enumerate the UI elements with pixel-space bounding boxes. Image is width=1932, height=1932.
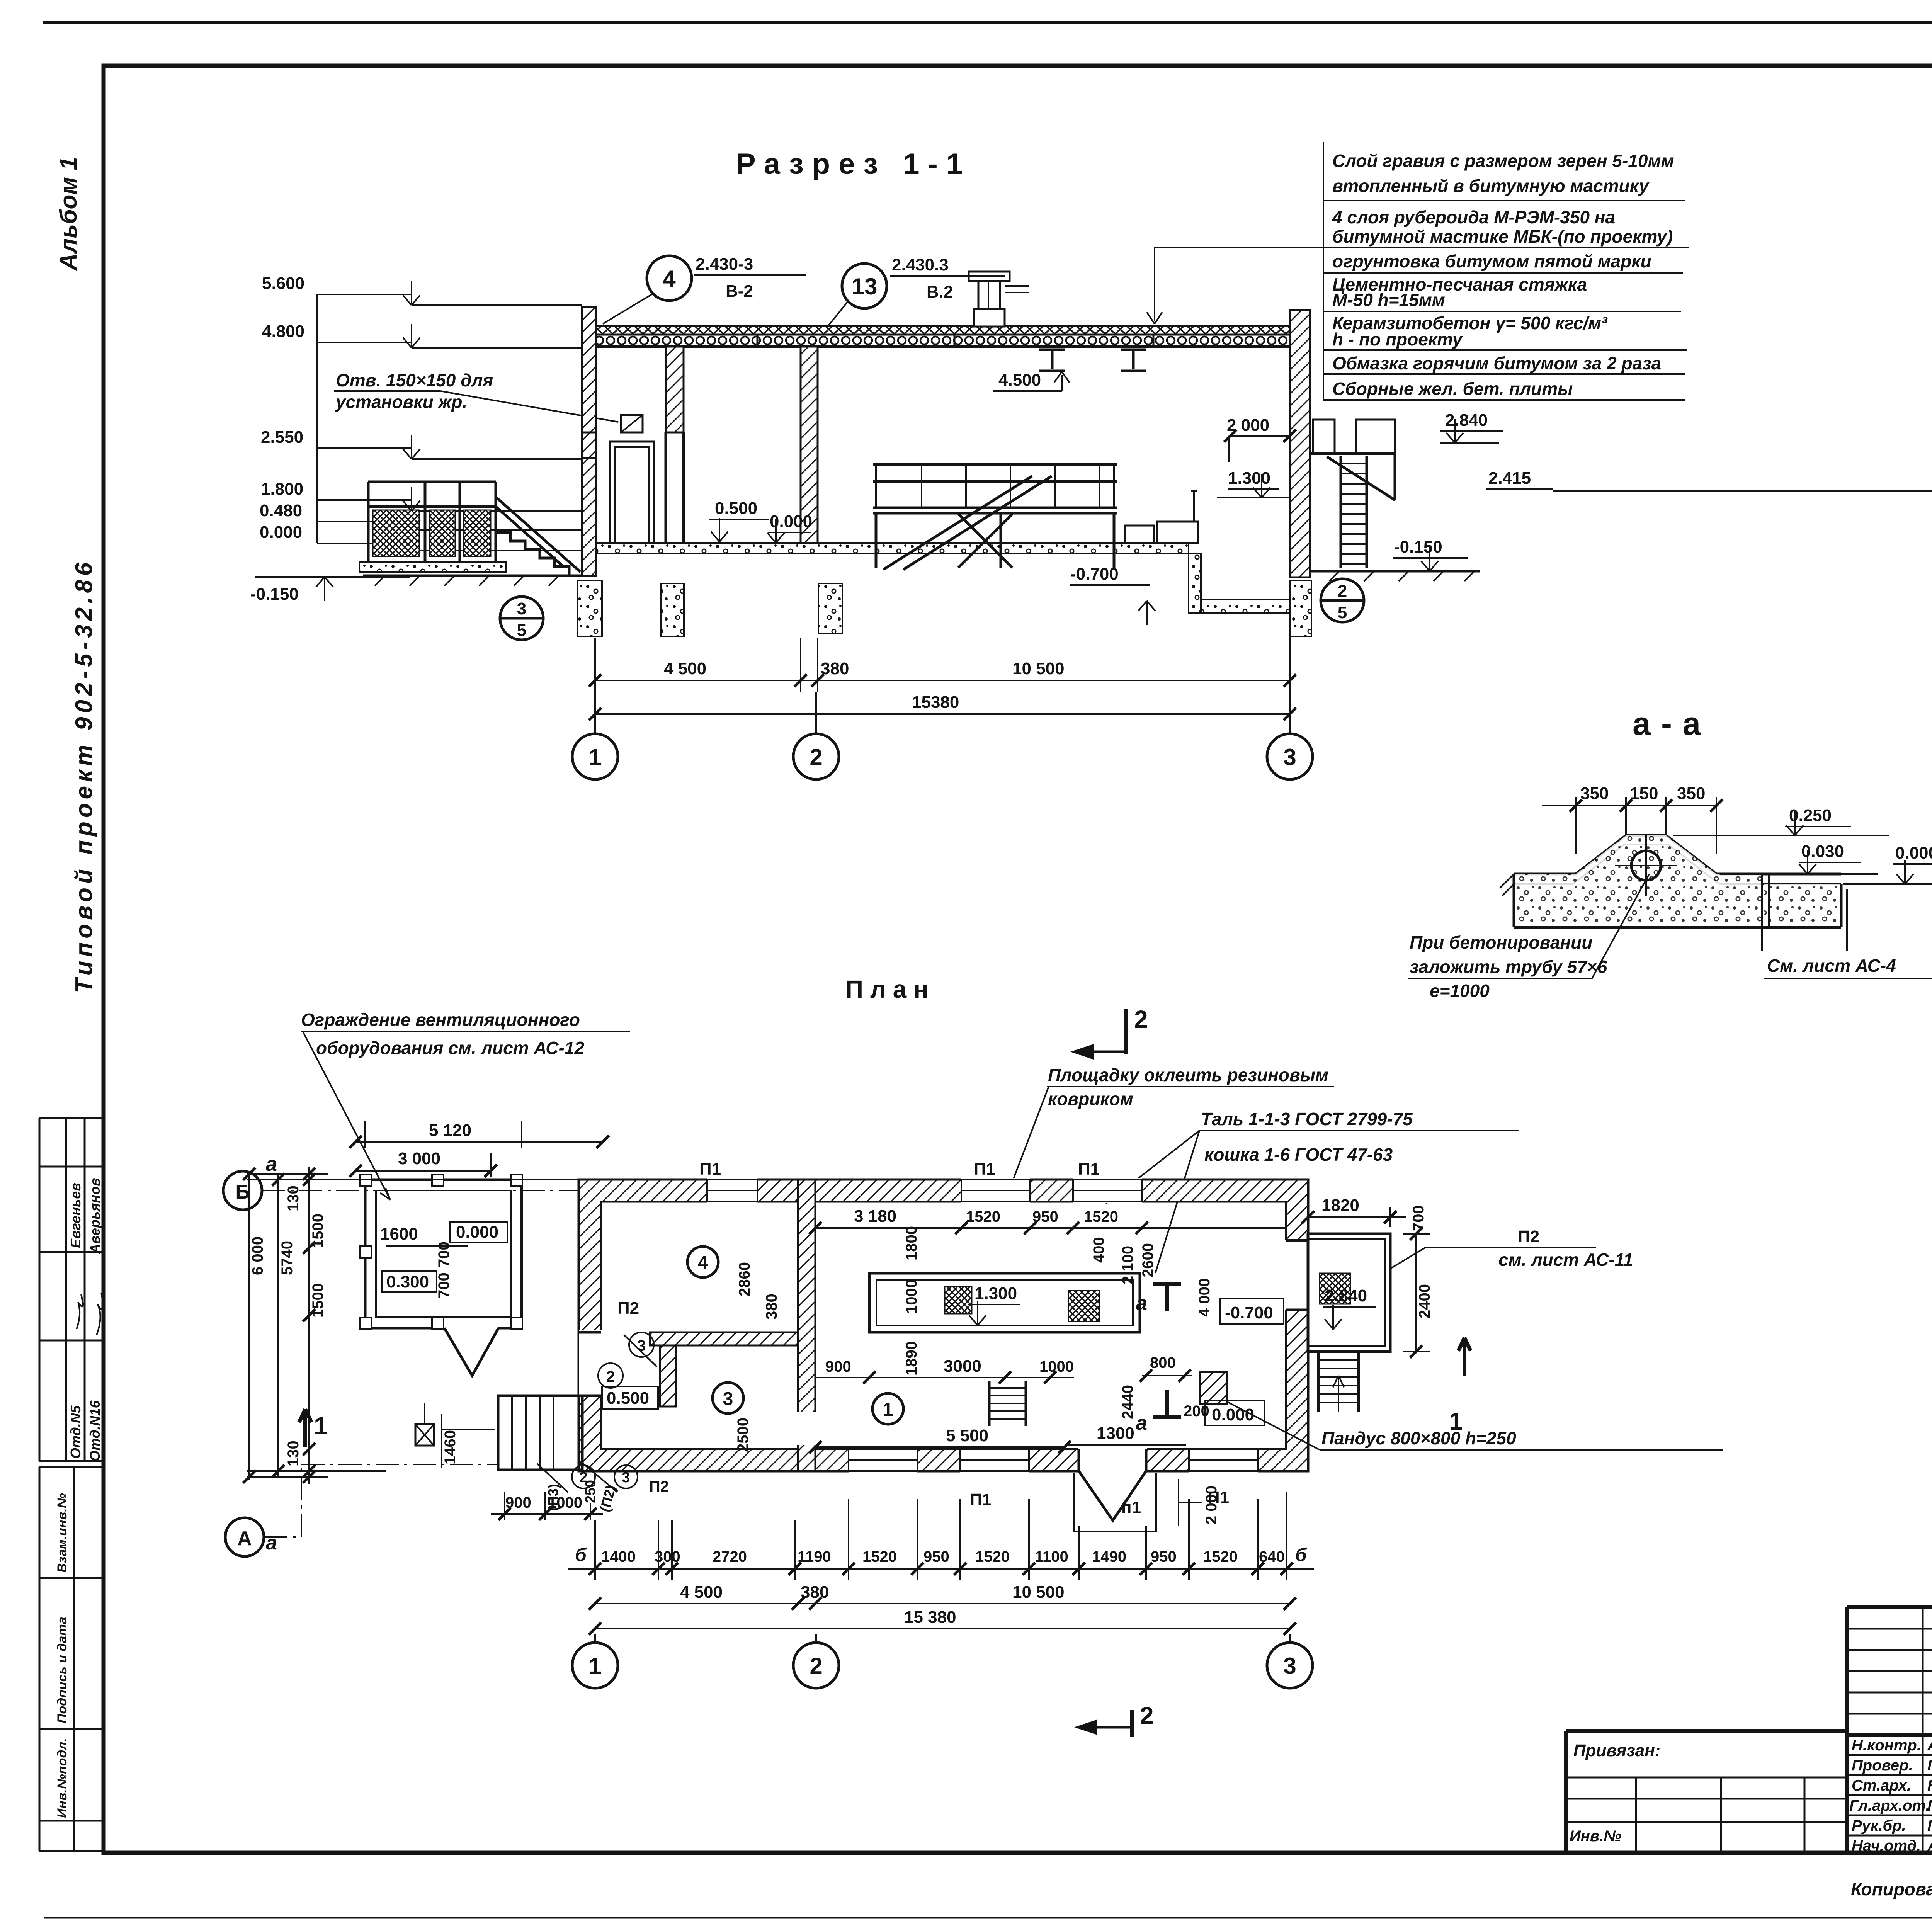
- svg-text:а - а: а - а: [1633, 706, 1701, 742]
- svg-text:5.600: 5.600: [262, 274, 304, 293]
- svg-text:1400: 1400: [601, 1548, 636, 1565]
- svg-text:0.500: 0.500: [607, 1389, 649, 1408]
- svg-text:-0.700: -0.700: [1070, 565, 1119, 583]
- svg-text:Инв.№: Инв.№: [1570, 1828, 1621, 1845]
- svg-text:1: 1: [883, 1400, 893, 1420]
- svg-text:130: 130: [285, 1185, 302, 1211]
- svg-text:ковриком: ковриком: [1048, 1089, 1133, 1109]
- svg-text:а: а: [266, 1153, 277, 1175]
- svg-text:Рук.бр.: Рук.бр.: [1852, 1817, 1906, 1834]
- svg-text:380: 380: [763, 1294, 780, 1320]
- svg-text:130: 130: [285, 1440, 302, 1466]
- svg-text:1800: 1800: [903, 1226, 920, 1260]
- svg-text:350: 350: [1580, 784, 1609, 803]
- svg-text:Привязан:: Привязан:: [1573, 1741, 1660, 1760]
- svg-text:М-50 h=15мм: М-50 h=15мм: [1332, 290, 1445, 310]
- svg-text:4 500: 4 500: [664, 659, 706, 678]
- svg-text:Обмазка горячим битумом за 2 р: Обмазка горячим битумом за 2 раза: [1332, 353, 1661, 373]
- svg-text:3: 3: [1283, 1653, 1296, 1679]
- svg-text:3: 3: [637, 1337, 646, 1354]
- svg-text:5: 5: [517, 621, 526, 640]
- svg-text:П2: П2: [649, 1478, 669, 1495]
- svg-text:втопленный в битумную мастику: втопленный в битумную мастику: [1332, 176, 1650, 196]
- svg-text:Альтшуллер: Альтшуллер: [1927, 1837, 1932, 1854]
- svg-text:заложить трубу 57×6: заложить трубу 57×6: [1410, 957, 1607, 977]
- svg-text:1600: 1600: [380, 1225, 418, 1243]
- svg-text:В.2: В.2: [927, 282, 953, 301]
- svg-text:1: 1: [1449, 1407, 1463, 1435]
- svg-text:3000: 3000: [944, 1357, 981, 1376]
- svg-text:Площадку оклеить резиновым: Площадку оклеить резиновым: [1048, 1065, 1328, 1085]
- svg-text:1500: 1500: [310, 1283, 327, 1318]
- svg-text:Провер.: Провер.: [1852, 1757, 1913, 1774]
- svg-text:3: 3: [1283, 744, 1296, 770]
- svg-text:380: 380: [821, 659, 849, 678]
- svg-text:П2: П2: [617, 1299, 639, 1318]
- svg-text:900: 900: [825, 1358, 851, 1375]
- svg-text:а: а: [1136, 1292, 1147, 1315]
- svg-text:огрунтовка битумом пятой марки: огрунтовка битумом пятой марки: [1332, 251, 1651, 271]
- svg-text:Подпись и дата: Подпись и дата: [55, 1617, 70, 1723]
- svg-text:1100: 1100: [1035, 1548, 1068, 1565]
- svg-text:4.500: 4.500: [998, 371, 1041, 389]
- svg-text:2600: 2600: [1139, 1243, 1156, 1277]
- svg-text:5740: 5740: [279, 1241, 296, 1275]
- svg-text:Пандус 800×800 h=250: Пандус 800×800 h=250: [1321, 1428, 1516, 1448]
- svg-text:4: 4: [663, 266, 676, 292]
- svg-text:1890: 1890: [903, 1341, 920, 1376]
- svg-text:1500: 1500: [310, 1214, 327, 1248]
- svg-text:П1: П1: [974, 1160, 995, 1179]
- svg-text:1000: 1000: [548, 1494, 582, 1511]
- svg-text:Н.контр.: Н.контр.: [1852, 1737, 1921, 1754]
- svg-text:0.000: 0.000: [260, 523, 302, 542]
- svg-text:см. лист АС-11: см. лист АС-11: [1498, 1250, 1633, 1270]
- svg-text:1520: 1520: [1084, 1208, 1118, 1225]
- svg-text:300: 300: [655, 1548, 680, 1565]
- svg-text:П1: П1: [970, 1490, 992, 1509]
- svg-text:1: 1: [588, 1653, 601, 1679]
- svg-text:3 000: 3 000: [398, 1149, 440, 1168]
- svg-text:оборудования см. лист АС-12: оборудования см. лист АС-12: [316, 1038, 584, 1058]
- svg-text:4 слоя рубероида М-РЭМ-350 н: 4 слоя рубероида М-РЭМ-350 на: [1332, 207, 1615, 227]
- svg-text:1300: 1300: [1097, 1424, 1134, 1443]
- svg-text:Нач.отд.: Нач.отд.: [1852, 1837, 1921, 1854]
- svg-text:2860: 2860: [736, 1262, 753, 1296]
- svg-text:битумной мастике МБК-(по проек: битумной мастике МБК-(по проекту): [1332, 226, 1673, 247]
- svg-text:1820: 1820: [1321, 1196, 1359, 1215]
- svg-text:15380: 15380: [912, 693, 959, 712]
- svg-text:0.480: 0.480: [260, 501, 302, 520]
- svg-text:400: 400: [1090, 1237, 1107, 1263]
- svg-text:П1: П1: [1078, 1160, 1100, 1179]
- svg-text:2720: 2720: [713, 1548, 747, 1565]
- svg-text:1.300: 1.300: [1228, 469, 1270, 488]
- svg-text:950: 950: [1151, 1548, 1177, 1565]
- svg-text:2.840: 2.840: [1325, 1286, 1367, 1305]
- svg-text:1000: 1000: [903, 1279, 920, 1314]
- svg-text:П1: П1: [699, 1160, 721, 1179]
- svg-text:Сборные жел. бет. плиты: Сборные жел. бет. плиты: [1332, 379, 1573, 399]
- svg-text:3 180: 3 180: [854, 1207, 896, 1226]
- svg-text:2: 2: [606, 1368, 615, 1385]
- svg-text:13: 13: [852, 274, 878, 299]
- svg-text:250: 250: [582, 1480, 598, 1503]
- svg-text:б: б: [1295, 1545, 1307, 1565]
- svg-text:-0.150: -0.150: [1394, 537, 1442, 556]
- svg-text:Копировал: Шуляковская: Копировал: Шуляковская: [1851, 1879, 1932, 1899]
- svg-text:Инв.№подл.: Инв.№подл.: [55, 1738, 70, 1818]
- svg-text:0.000: 0.000: [1895, 844, 1932, 862]
- svg-text:950: 950: [1032, 1208, 1058, 1225]
- svg-text:10 500: 10 500: [1012, 659, 1065, 678]
- svg-text:1520: 1520: [966, 1208, 1000, 1225]
- svg-text:а: а: [266, 1532, 277, 1554]
- svg-text:5 500: 5 500: [946, 1426, 988, 1445]
- svg-text:б: б: [575, 1545, 587, 1565]
- svg-text:Гл.арх.от.: Гл.арх.от.: [1849, 1797, 1930, 1814]
- svg-text:2: 2: [1134, 1005, 1148, 1033]
- svg-text:1520: 1520: [862, 1548, 897, 1565]
- svg-text:Взам.инв.№: Взам.инв.№: [55, 1493, 70, 1573]
- svg-text:4 500: 4 500: [680, 1583, 723, 1602]
- svg-text:2: 2: [810, 1653, 822, 1679]
- svg-text:1190: 1190: [798, 1548, 831, 1565]
- svg-text:Галактионов: Галактионов: [1927, 1797, 1932, 1814]
- svg-text:15 380: 15 380: [904, 1608, 956, 1627]
- svg-text:-0.150: -0.150: [250, 585, 299, 604]
- svg-text:Кибальчич: Кибальчич: [1927, 1777, 1932, 1794]
- svg-text:План: План: [845, 975, 935, 1003]
- svg-text:установки жр.: установки жр.: [335, 392, 467, 412]
- svg-text:1.300: 1.300: [975, 1284, 1017, 1303]
- svg-text:0.300: 0.300: [386, 1272, 429, 1291]
- svg-text:2400: 2400: [1416, 1284, 1433, 1318]
- svg-text:2.430.3: 2.430.3: [892, 255, 949, 274]
- svg-text:Разрез 1-1: Разрез 1-1: [736, 148, 971, 180]
- svg-text:Отв. 150×150 для: Отв. 150×150 для: [336, 370, 493, 390]
- svg-text:Отд.N5: Отд.N5: [68, 1405, 83, 1459]
- svg-text:Евгеньев: Евгеньев: [68, 1183, 83, 1248]
- svg-text:700: 700: [435, 1272, 452, 1298]
- svg-text:10 500: 10 500: [1012, 1583, 1065, 1602]
- svg-text:2: 2: [810, 744, 822, 770]
- svg-text:h - по проекту: h - по проекту: [1332, 329, 1463, 349]
- svg-text:2.840: 2.840: [1445, 411, 1488, 430]
- svg-text:1520: 1520: [975, 1548, 1010, 1565]
- svg-text:При бетонировании: При бетонировании: [1410, 932, 1592, 952]
- svg-text:е=1000: е=1000: [1430, 981, 1490, 1001]
- svg-text:4.800: 4.800: [262, 322, 304, 341]
- svg-text:800: 800: [1150, 1354, 1176, 1371]
- svg-text:2.430-3: 2.430-3: [696, 255, 753, 274]
- svg-text:1: 1: [314, 1412, 328, 1440]
- svg-text:380: 380: [801, 1583, 829, 1602]
- svg-text:Аверьянов: Аверьянов: [87, 1178, 103, 1254]
- svg-text:1: 1: [588, 744, 601, 770]
- svg-text:Галактионов: Галактионов: [1927, 1757, 1932, 1774]
- svg-text:Ст.арх.: Ст.арх.: [1852, 1777, 1911, 1794]
- svg-text:3: 3: [517, 599, 526, 618]
- svg-text:2.550: 2.550: [261, 428, 303, 447]
- svg-text:2.415: 2.415: [1488, 469, 1531, 488]
- svg-text:900: 900: [505, 1494, 531, 1511]
- svg-text:4: 4: [698, 1253, 708, 1273]
- svg-text:2: 2: [1140, 1702, 1154, 1730]
- svg-text:Отд.N16: Отд.N16: [87, 1400, 103, 1461]
- svg-text:1490: 1490: [1092, 1548, 1126, 1565]
- svg-text:Слой гравия с размером зерен 5: Слой гравия с размером зерен 5-10мм: [1332, 151, 1674, 171]
- svg-text:0.000: 0.000: [1212, 1405, 1254, 1424]
- svg-text:кошка 1-6 ГОСТ 47-63: кошка 1-6 ГОСТ 47-63: [1204, 1145, 1393, 1165]
- svg-text:Б: Б: [235, 1181, 250, 1203]
- svg-text:350: 350: [1677, 784, 1705, 803]
- svg-text:1460: 1460: [442, 1430, 459, 1464]
- svg-text:Ограждение вентиляционного: Ограждение вентиляционного: [301, 1010, 580, 1030]
- svg-text:П2: П2: [1518, 1227, 1539, 1246]
- svg-text:п1: п1: [1121, 1498, 1141, 1517]
- svg-text:700: 700: [1410, 1205, 1427, 1231]
- svg-text:1520: 1520: [1203, 1548, 1238, 1565]
- svg-text:-0.700: -0.700: [1225, 1303, 1273, 1322]
- svg-text:950: 950: [923, 1548, 949, 1565]
- svg-text:5: 5: [1338, 603, 1347, 622]
- svg-text:Гольдина: Гольдина: [1927, 1817, 1932, 1834]
- svg-text:2440: 2440: [1119, 1385, 1136, 1419]
- svg-text:1.800: 1.800: [261, 480, 303, 498]
- svg-text:2500: 2500: [735, 1418, 752, 1452]
- svg-text:2 100: 2 100: [1119, 1246, 1136, 1284]
- svg-text:2: 2: [1338, 582, 1347, 600]
- svg-text:6 000: 6 000: [249, 1236, 266, 1275]
- svg-text:640: 640: [1259, 1548, 1285, 1565]
- svg-text:0.500: 0.500: [715, 499, 757, 518]
- svg-text:Альбом 1: Альбом 1: [55, 157, 82, 271]
- svg-text:2 000: 2 000: [1203, 1486, 1220, 1524]
- svg-text:См. лист АС-4: См. лист АС-4: [1767, 956, 1896, 976]
- svg-text:Типовой проект 902-5-32.86: Типовой проект 902-5-32.86: [71, 559, 97, 993]
- svg-text:3: 3: [723, 1389, 733, 1409]
- svg-text:700: 700: [435, 1242, 452, 1267]
- svg-text:5 120: 5 120: [429, 1121, 471, 1140]
- svg-text:а: а: [1136, 1412, 1147, 1434]
- svg-text:150: 150: [1630, 784, 1658, 803]
- svg-text:3: 3: [622, 1469, 630, 1486]
- svg-text:В-2: В-2: [726, 282, 753, 301]
- svg-text:Таль 1-1-3 ГОСТ 2799-7: Таль 1-1-3 ГОСТ 2799-75: [1201, 1109, 1413, 1129]
- svg-text:А: А: [237, 1527, 252, 1550]
- svg-text:Альтшуллер: Альтшуллер: [1927, 1737, 1932, 1754]
- svg-text:4 000: 4 000: [1196, 1278, 1213, 1317]
- svg-text:0.000: 0.000: [456, 1223, 498, 1242]
